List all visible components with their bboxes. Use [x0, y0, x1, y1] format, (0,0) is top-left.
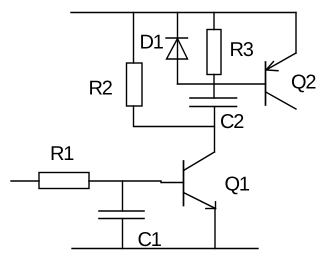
- wire from rail down to R2: [133, 13, 135, 64]
- wire from R1 to Q1 base: [89, 181, 184, 183]
- resistor R2: [127, 63, 143, 106]
- wire from R2 bottom down and right to C2 bottom node: [134, 106, 215, 127]
- wire from base node down to C1: [122, 181, 124, 211]
- transistor Q1: [184, 152, 216, 209]
- wire from rail down to R3: [213, 13, 215, 30]
- resistor R3: [207, 30, 221, 75]
- svg-text:D1: D1: [140, 32, 164, 54]
- svg-text:Q1: Q1: [225, 174, 250, 196]
- capacitor C1: [99, 211, 144, 219]
- wire from rail right end down to Q2 emitter: [295, 13, 297, 54]
- wire Q1 emitter down to ground rail: [214, 209, 216, 249]
- capacitor C2: [190, 98, 237, 107]
- wire from R3 bottom through node line to C2 top plate: [213, 75, 215, 99]
- svg-text:R3: R3: [230, 39, 254, 61]
- wire from rail down through D1 to node line: [177, 13, 179, 85]
- wire from C2 bottom plate down to Q1 collector: [214, 107, 216, 153]
- wire top supply rail: [71, 12, 296, 14]
- svg-text:R2: R2: [89, 78, 113, 100]
- diode D1: [166, 38, 188, 59]
- resistor R1: [39, 173, 89, 189]
- wire from C1 bottom plate down to ground rail: [122, 219, 124, 249]
- svg-text:C1: C1: [138, 229, 162, 251]
- wire node line from D1 to Q2 base: [178, 83, 266, 85]
- svg-text:Q2: Q2: [291, 72, 316, 94]
- svg-text:C2: C2: [220, 111, 244, 133]
- wire input lead at left: [11, 180, 39, 182]
- wire bottom ground rail: [72, 248, 258, 250]
- svg-text:R1: R1: [50, 143, 74, 165]
- transistor Q2: [266, 53, 297, 109]
